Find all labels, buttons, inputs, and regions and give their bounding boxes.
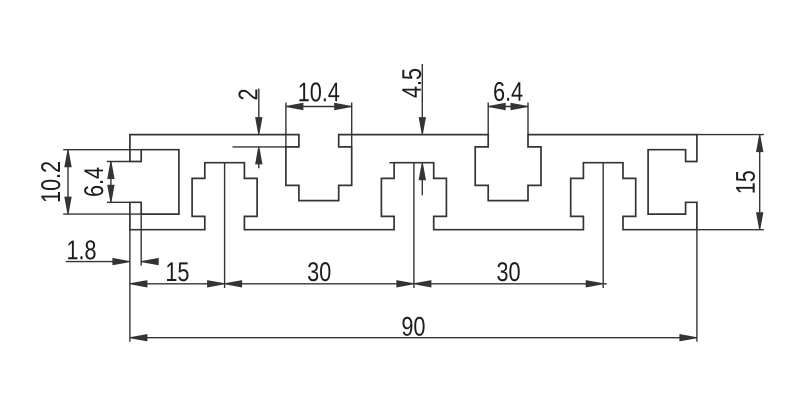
extension line slot2 center <box>413 163 415 288</box>
extension line right face <box>696 230 698 342</box>
dim 30 second line and arrows <box>414 283 607 285</box>
dim 6.4 left extension lines <box>107 161 130 163</box>
dim 4.5 lines and arrows <box>421 64 423 135</box>
dim 2 text <box>238 90 257 100</box>
dim 30 first line and arrows <box>225 283 414 285</box>
dim 10.4 extension lines <box>285 103 287 147</box>
dim 10.2 text <box>41 162 60 201</box>
dim 90 line and arrows <box>130 337 697 339</box>
dim 15 line and arrows <box>130 283 225 285</box>
dim 6.4 top extension lines <box>487 103 489 135</box>
dim 2 extension line <box>233 146 286 148</box>
dim 6.4 top line and arrows <box>488 106 528 108</box>
dim 6.4 top text <box>494 82 522 101</box>
dim 15 right text <box>736 171 755 192</box>
dim 1.8 lines and arrows <box>66 261 113 263</box>
dim 90 text <box>402 317 424 336</box>
extension line left face <box>129 230 131 342</box>
dim 10.4 text <box>299 82 339 101</box>
dim 6.4 left line and arrows <box>110 162 112 203</box>
dim 30 second text <box>497 262 519 281</box>
dim 15 text <box>167 262 188 281</box>
dim 1.8 extension line <box>140 214 142 266</box>
profile outline 90x15 extrusion cross-section <box>130 135 697 230</box>
dim 15 right extension lines <box>697 134 764 136</box>
dim 1.8 text <box>68 240 95 259</box>
dim 30 first text <box>308 262 330 281</box>
extension line slot3 center <box>602 163 604 288</box>
dim 10.4 line and arrows <box>286 106 352 108</box>
dim 10.2 extension lines <box>63 149 141 151</box>
dim 6.4 left text <box>84 168 103 196</box>
extension line slot1 center <box>224 163 226 288</box>
dim 4.5 extension line <box>389 162 394 164</box>
dim 15 right line and arrows <box>759 135 761 230</box>
dim 4.5 text <box>402 69 421 98</box>
dim 2 lines and arrows <box>258 89 260 135</box>
dim 10.2 line and arrows <box>67 150 69 214</box>
